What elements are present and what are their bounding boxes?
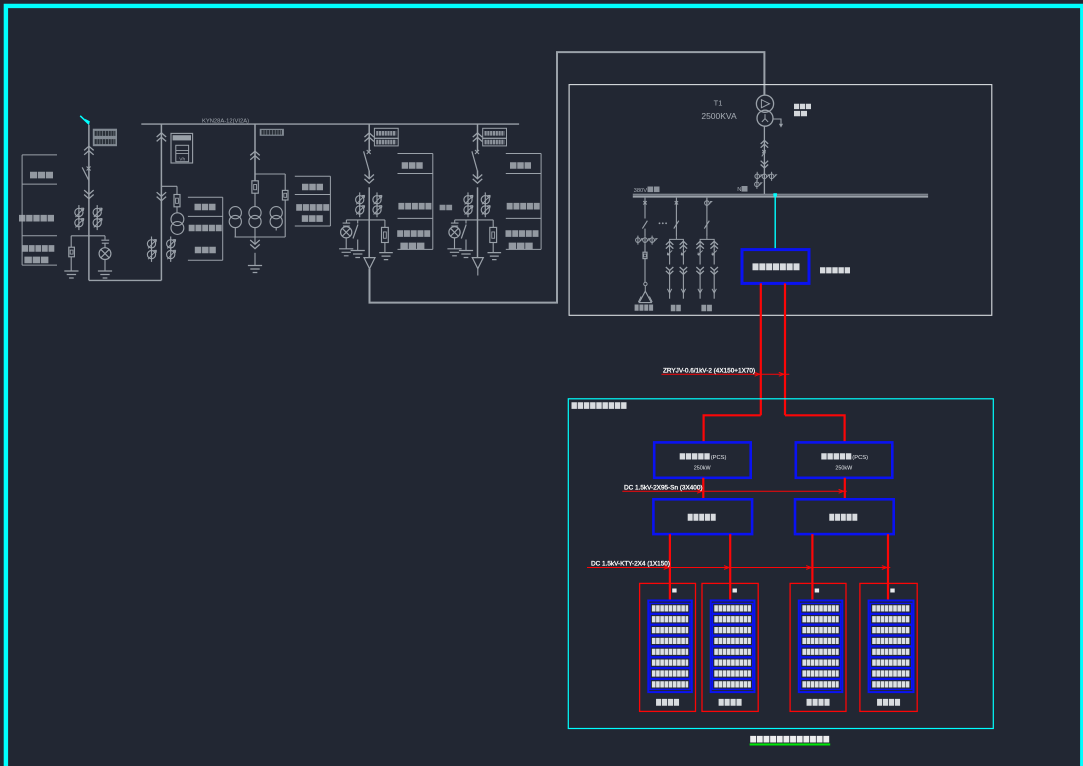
legend table bay4 (398, 154, 433, 250)
cable PCS U1 to DC combiner (702, 478, 704, 500)
wire feeder 馈1 riser (675, 198, 677, 237)
disconnector blade bay1 (82, 167, 89, 180)
wire bay4 riser upper (368, 124, 370, 151)
transformer T1 primary winding (756, 95, 773, 112)
wire bay4 riser lower (368, 187, 370, 220)
battery module row 7 4# (870, 669, 911, 679)
label 电流互感器 bay4 (398, 203, 431, 210)
legend table bay2 (188, 197, 223, 260)
wire bay1 main riser (88, 125, 90, 281)
battery module row 2 4# (870, 614, 911, 624)
wire (254, 228, 256, 245)
wire (713, 249, 715, 265)
drawout contact lower feeder 馈2 right (710, 271, 718, 275)
label 避雷器 bay2 (195, 247, 216, 254)
label 熔断器 bay2 (195, 204, 216, 211)
ground live display bay5 (488, 253, 502, 260)
svg-text:250kW: 250kW (835, 466, 853, 472)
indicator square 4# (890, 589, 894, 593)
label 电压互感器 bay2 (189, 225, 222, 232)
label 4# 电池堆 (877, 699, 900, 706)
battery stack cabinet 4# (860, 583, 917, 711)
label 电流互感器 bay5 (507, 203, 540, 210)
battery module row 6 3# (801, 658, 841, 668)
svg-text:(PCS): (PCS) (852, 455, 868, 461)
label 高压 between bay4 bay5 (440, 205, 453, 211)
battery stack cabinet 2# (702, 583, 758, 711)
wire bay1-bay2 bottom link (89, 279, 161, 281)
wire bay4 riser mid (368, 171, 370, 179)
grid-tie cabinet 储能系统并网柜 (742, 250, 809, 284)
wire bay4 branch tee (346, 219, 385, 221)
wire (284, 174, 286, 190)
indicator lamp bay4 (341, 227, 352, 238)
wire (104, 243, 106, 248)
wire earthing switch bay4 (357, 220, 359, 224)
wire bay4 to outgoing (368, 220, 370, 258)
breaker mark bay5 (475, 150, 479, 154)
drawout contact feeder 馈2 right (710, 241, 718, 245)
arrow on stack cable 1 (664, 566, 669, 570)
label 避雷器 bay3 (302, 215, 323, 222)
drawout contact lower bay2 (157, 197, 167, 201)
battery module row 6 1# (650, 658, 690, 668)
svg-text:(PCS): (PCS) (711, 455, 727, 461)
title 储能系统电气主接线系统图 (750, 736, 829, 743)
LV busbar 380V (633, 195, 928, 197)
PCS converter U2 (796, 442, 893, 477)
drawout contact feeder 馈1 right (680, 241, 688, 245)
battery module row 2 1# (650, 614, 690, 624)
cable PCS feed B vertical (784, 283, 786, 415)
wire (644, 229, 646, 236)
legend table bay5 (506, 154, 541, 250)
transformer T1 secondary winding (757, 110, 773, 126)
arrow terminal feeder 馈1 right (681, 289, 685, 293)
breaker arrow feeder 馈1 left (667, 250, 672, 255)
label 1# 电池堆 (656, 699, 679, 706)
voltage transformer bay3 TV3 (270, 207, 282, 219)
wire to ground (384, 243, 386, 253)
wire feeder 馈1 split (670, 237, 684, 251)
drawout contact lower bay1 (84, 195, 94, 199)
wire (669, 249, 671, 265)
energy meter box bay2 (171, 133, 193, 163)
svg-text:Vh: Vh (179, 156, 185, 162)
wire bay1 left drop (70, 236, 72, 247)
surge arrester bay1 FV1 (69, 247, 75, 257)
battery module row 5 3# (801, 647, 841, 657)
drawout contact T1 upper (761, 140, 769, 144)
label 3# 电池堆 (807, 699, 830, 706)
CT pair right bay1 (96, 205, 98, 220)
battery module row 3 4# (870, 625, 911, 635)
ground earthing switch bay4 (351, 251, 365, 258)
battery module row 7 3# (801, 669, 841, 679)
wire bay5 stub (477, 269, 479, 276)
svg-text:DC 1.5kV-KTY-2X4 (1X150): DC 1.5kV-KTY-2X4 (1X150) (591, 561, 670, 568)
drawout contact lower feeder 馈2 left (696, 271, 704, 275)
wire capacitor feeder riser (644, 198, 646, 219)
CT pair left bay1 (78, 205, 80, 220)
outgoing cable terminal bay4 (364, 258, 375, 269)
arrow on stack cable 2 (724, 566, 729, 570)
breaker blade bay4 (364, 151, 369, 170)
label 电压互感器 bay3 (296, 204, 329, 211)
drawout contact lower feeder 馈1 right (680, 271, 688, 275)
wire busbar to grid-tie cabinet (cyan) (774, 197, 776, 250)
LV distribution enclosure box (569, 85, 992, 316)
wire (669, 271, 671, 299)
wire live display drop (384, 220, 386, 228)
switch blade feeder 馈1 (674, 221, 679, 229)
LV busbar thin line (633, 193, 928, 195)
drawout contact feeder 馈1 left (666, 241, 674, 245)
battery module row 2 2# (713, 614, 753, 624)
DC combiner cabinet K1 (653, 499, 752, 534)
label 避雷器 bay1 (24, 257, 48, 264)
label 储能系统(储能产品) (572, 402, 627, 409)
battery module row 6 2# (713, 658, 753, 668)
breaker mark T1 (762, 150, 765, 153)
svg-text:ZRYJV-0.6/1kV-2 (4X150+1X70): ZRYJV-0.6/1kV-2 (4X150+1X70) (663, 367, 755, 374)
busbar 10kV switchgear (141, 123, 519, 125)
wire (284, 200, 286, 237)
wire (176, 207, 178, 213)
arrow terminal feeder 馈2 left (698, 289, 702, 293)
ground bay3 (248, 266, 262, 273)
DC combiner cabinet K2 (795, 499, 894, 534)
drawout contact upper bay1 (84, 146, 94, 150)
label 熔断器 bay3 (302, 184, 323, 191)
label 2# 电池堆 (719, 699, 742, 706)
battery module row 2 3# (801, 614, 841, 624)
title underline (green) (750, 743, 831, 745)
CT pair right bay4 (376, 192, 378, 207)
label 馈1 (671, 305, 681, 311)
storage system boundary box (568, 399, 993, 729)
label 断路器 bay4 (402, 162, 423, 169)
label 位于配电房 (820, 267, 850, 273)
CT pair right bay2 (170, 237, 172, 252)
label box FU2-5RA bay3 (260, 129, 284, 136)
drawout contact bay3 (250, 151, 260, 155)
drawout contact upper bay5 (473, 133, 483, 137)
breaker blade bay5 (472, 151, 477, 170)
label 带电显示器 bay5 (506, 230, 539, 237)
battery module row 4 1# (650, 636, 690, 646)
wire bay5 riser lower (477, 187, 479, 220)
drawout contact lower bay5 (473, 179, 483, 183)
arrow on cable A (755, 372, 760, 376)
label 直流汇流柜 K1 (688, 514, 716, 521)
svg-text:KYN28A-12(VI2A): KYN28A-12(VI2A) (202, 119, 249, 125)
label boxes FU2 bay4 (374, 128, 398, 138)
battery module row 8 1# (650, 679, 690, 689)
cable tag line DC 1.5kV lower (587, 567, 890, 569)
label 馈2 (701, 305, 712, 311)
svg-text:N: N (737, 187, 741, 193)
arrow on DC cable U1 (697, 489, 702, 493)
cable PCS U2 to DC combiner (844, 478, 846, 500)
outgoing cable terminal bay5 (472, 258, 483, 269)
battery module row 8 3# (801, 679, 841, 689)
wire live display drop (492, 220, 494, 228)
battery module row 3 2# (713, 625, 753, 635)
CB chevrons T1 lower (761, 165, 769, 169)
cable combiner to battery stack 4 (887, 534, 889, 600)
PCS converter U1 (654, 442, 751, 477)
arrow terminal feeder 馈1 left (667, 289, 671, 293)
indicator square 2# (733, 589, 737, 593)
cable tag line ZRYJV (662, 373, 790, 375)
wire (454, 220, 456, 223)
indicator lamp bay5 (449, 227, 460, 238)
wire (234, 228, 236, 237)
battery module row 1 1# (650, 603, 690, 613)
fuse capacitor feeder (643, 252, 647, 258)
wire (713, 271, 715, 299)
ground bay4 lamp (339, 249, 353, 256)
T1 neutral grounding arm (773, 119, 781, 124)
fuse bay3 FU (252, 181, 258, 193)
battery module row 5 2# (713, 647, 753, 657)
label 断路器 bay5 (510, 162, 531, 169)
label 储能变流器 U1 (680, 453, 710, 459)
legend table bay3 (295, 176, 331, 226)
wire to ground bay1 (70, 257, 72, 271)
drawout contact lower bay4 (364, 179, 374, 183)
battery module group 1# (648, 601, 692, 693)
wire (682, 271, 684, 299)
battery module row 1 4# (870, 603, 911, 613)
cable tag line DC 1.5kV upper (622, 490, 847, 492)
voltage transformer bay2 TV (171, 213, 184, 226)
wire bay5 to outgoing (477, 220, 479, 258)
label 避雷器 bay4 (400, 243, 424, 250)
CT pair right bay5 (484, 192, 486, 207)
label 干式变压器 (794, 104, 811, 109)
wire (699, 271, 701, 299)
wire (275, 228, 277, 231)
wire (254, 193, 256, 206)
breaker mark capacitor feeder (643, 201, 646, 204)
battery module row 4 2# (713, 636, 753, 646)
CT pair left bay2 (151, 237, 153, 252)
arrow terminal feeder 馈2 right (712, 289, 716, 293)
battery module row 8 2# (713, 679, 753, 689)
label boxes FU2 bay5 (483, 128, 507, 138)
indicator square 3# (815, 589, 819, 593)
surge arrester bay3 FV (282, 190, 288, 200)
label 电容器组 (635, 305, 654, 311)
cable PCS feed B jog (785, 415, 845, 442)
indicator lamp bay1 (99, 248, 111, 260)
battery stack cabinet 1# (640, 583, 696, 711)
wire to ground (465, 240, 467, 251)
capacitor bank SPD symbol (639, 291, 651, 302)
CT extra T1 (756, 180, 758, 189)
wire T1 to LV busbar (763, 126, 765, 194)
legend table bay1 (22, 155, 57, 265)
wire to ground (357, 240, 359, 251)
voltage transformer bay3 TV2 (249, 207, 261, 219)
label 带外壳 (794, 111, 807, 116)
arrow on DC cable U2 (839, 489, 844, 493)
wire (682, 249, 684, 265)
wire bay1 right drop (104, 236, 106, 240)
node capacitor feeder (644, 282, 647, 285)
cable combiner to battery stack 3 (811, 534, 813, 600)
wire bay5 riser mid (477, 171, 479, 179)
battery stack cabinet 3# (790, 583, 846, 711)
wire to ground (104, 260, 106, 272)
battery module row 5 1# (650, 647, 690, 657)
wire (345, 220, 347, 223)
cable PCS feed A jog (704, 415, 761, 442)
svg-text:2500KVA: 2500KVA (701, 111, 737, 121)
wire (644, 259, 646, 283)
breaker arrow feeder 馈2 right (712, 250, 717, 255)
battery module row 3 3# (801, 625, 841, 635)
label 储能系统并网柜 (753, 263, 800, 270)
wire to ground (345, 238, 347, 249)
wire (176, 186, 178, 194)
breaker mark feeder 馈1 (675, 201, 678, 204)
label 直流汇流柜 K2 (829, 514, 857, 521)
fuse bay2 FU (174, 195, 180, 207)
breaker mark bay1 (87, 167, 91, 171)
indicator square 1# (672, 589, 676, 593)
wire bay2 PT branch (161, 185, 177, 187)
wire bay5 riser upper (477, 124, 479, 151)
svg-text:380V: 380V (634, 188, 648, 194)
drawout contact lower bay3 (250, 244, 260, 248)
wire to ground (492, 243, 494, 253)
label 电流互感器 bay1 (19, 215, 54, 222)
ground earthing switch bay5 (459, 251, 473, 258)
wire feeder 馈2 riser (706, 198, 708, 237)
drawout contact lower feeder 馈1 left (666, 271, 674, 275)
cable combiner to battery stack 2 (729, 534, 731, 600)
wire earthing switch bay5 (465, 220, 467, 224)
wire bay2 main riser (160, 124, 162, 280)
svg-text:250kW: 250kW (694, 466, 712, 472)
battery module row 6 4# (870, 658, 911, 668)
wire bay3 arrester branch (255, 173, 285, 175)
wire bay3 bottom tie (235, 236, 286, 238)
incoming supply arrow (cyan) (80, 116, 88, 124)
breaker mark bay4 (367, 150, 371, 154)
label box FU2-35TA/FU2-8P0A bay1 (93, 129, 117, 147)
ground live display bay4 (379, 253, 393, 260)
battery module row 5 4# (870, 647, 911, 657)
breaker arrow feeder 馈2 left (698, 250, 703, 255)
arrow on cable B (779, 372, 784, 376)
battery module group 2# (711, 601, 755, 693)
ground bay5 lamp (447, 249, 461, 256)
earthing switch blade bay5 (461, 225, 466, 239)
battery module group 3# (799, 601, 843, 693)
ellipsis between feeders (659, 222, 661, 224)
drawout contact upper bay2 (157, 133, 167, 137)
label 断路器 bay1 (30, 172, 53, 179)
wire feeder 馈2 split (700, 237, 714, 251)
wire to ground (454, 238, 456, 249)
CT pair left bay5 (467, 192, 469, 207)
CT row capacitor feeder (637, 236, 639, 245)
switch blade feeder 馈2 (704, 221, 709, 229)
ground bay1 left (64, 271, 78, 278)
earthing switch blade bay4 (353, 225, 358, 239)
breaker arrow feeder 馈1 right (681, 250, 686, 255)
wire bay4 to transformer T1 (370, 52, 765, 303)
node busbar takeoff (cyan) (773, 193, 777, 196)
wire (644, 245, 646, 253)
label 带电显示器 bay1 (22, 245, 54, 252)
battery module row 8 4# (870, 679, 911, 689)
delta mark in T1 primary (761, 100, 769, 108)
voltage transformer bay3 TV1 (229, 207, 241, 219)
ground bay1 right (98, 271, 112, 278)
wye mark in T1 secondary (762, 115, 768, 122)
wire (699, 249, 701, 265)
wire bay3 main riser (254, 124, 256, 181)
battery module row 1 2# (713, 603, 753, 613)
arrow on stack cable 3 (806, 566, 811, 570)
battery module row 7 2# (713, 669, 753, 679)
battery module row 7 1# (650, 669, 690, 679)
battery module row 3 1# (650, 625, 690, 635)
switch blade capacitor feeder (642, 221, 647, 229)
label 避雷器 bay5 (509, 243, 533, 250)
svg-text:T1: T1 (714, 98, 723, 107)
label 带电显示器 bay4 (397, 230, 430, 237)
battery module group 4# (869, 601, 914, 693)
drawout contact upper bay4 (364, 133, 374, 137)
label 储能变流器 U2 (821, 453, 851, 459)
CT pair left bay4 (359, 192, 361, 207)
svg-text:DC 1.5kV-2X95-Sn (3X400): DC 1.5kV-2X95-Sn (3X400) (624, 484, 703, 491)
capacitor plates bay5 (451, 223, 459, 226)
wire to ground bay3 (254, 253, 256, 266)
wire bay1 branch tee (71, 235, 105, 237)
arrow on stack cable 4 (882, 566, 887, 570)
CT feeder 馈2 riser (706, 199, 708, 208)
battery module row 4 3# (801, 636, 841, 646)
cable PCS feed A vertical (760, 283, 762, 415)
battery module row 1 3# (801, 603, 841, 613)
breaker blade T1 (762, 151, 766, 157)
drawout contact feeder 馈2 left (696, 241, 704, 245)
capacitor plates bay1 (101, 240, 109, 243)
live display device bay4 (382, 227, 389, 242)
cable combiner to battery stack 1 (669, 534, 671, 600)
capacitor plates bay4 (343, 223, 351, 226)
battery module row 4 4# (870, 636, 911, 646)
wire bay5 branch tee (455, 219, 494, 221)
CT cluster T1 (756, 172, 758, 181)
live display device bay5 (490, 227, 497, 242)
